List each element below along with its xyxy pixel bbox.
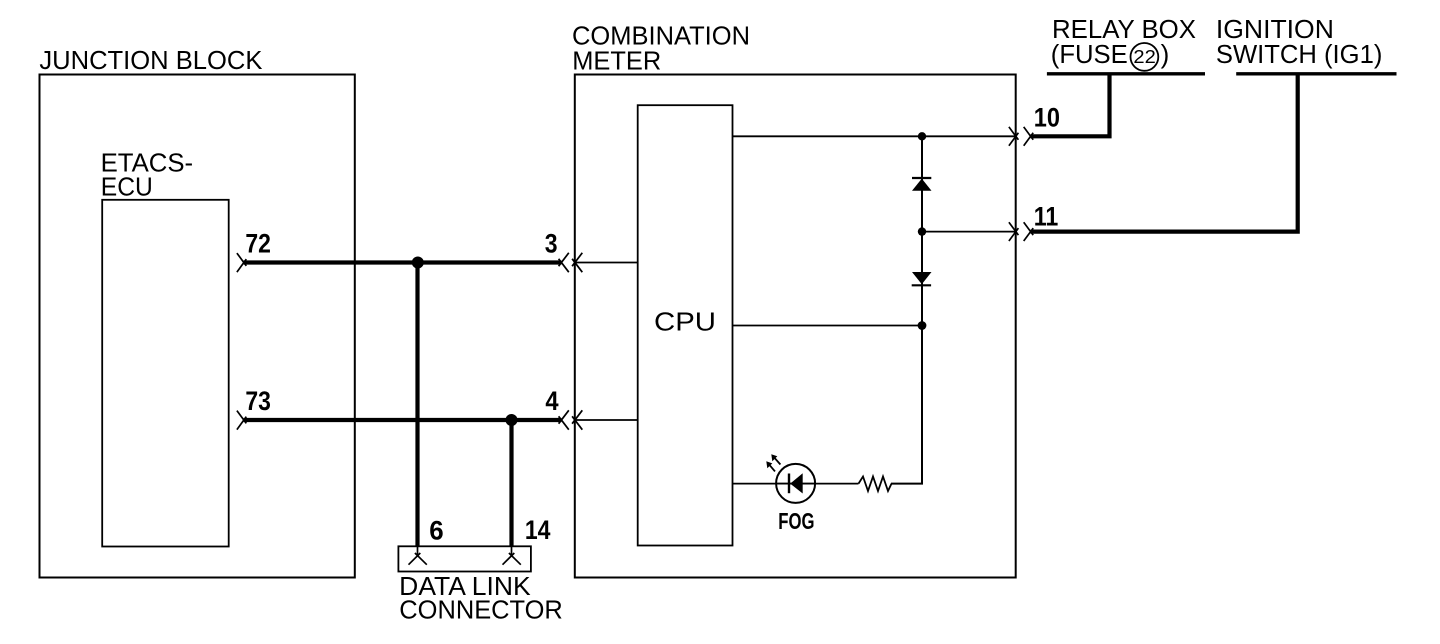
wire 10: meter to relay box: [1031, 74, 1110, 137]
svg-text:73: 73: [245, 386, 271, 416]
wire: node A down to data link connector pin 6: [415, 263, 419, 547]
wire: CPU to node C (top): [733, 135, 1016, 137]
node C junction dot: [918, 132, 926, 140]
node E junction dot: [918, 321, 927, 330]
wire: node B down to data link connector pin 14: [509, 420, 513, 546]
wire pin3 to CPU: [575, 262, 638, 264]
ETACS-ECU label: [101, 147, 194, 201]
pin 72 terminal chevron: [237, 253, 246, 272]
svg-text:6: 6: [429, 515, 443, 545]
vertical wire through diodes down to resistor corner: [891, 136, 922, 483]
pin 10 chevrons at meter box: [1009, 127, 1033, 146]
wire 72: ETACS to junction node: [244, 260, 562, 264]
svg-text:ECU: ECU: [101, 172, 153, 202]
svg-text:(FUSE: (FUSE: [1051, 39, 1128, 69]
combination meter label: [572, 20, 750, 75]
svg-text:CONNECTOR: CONNECTOR: [399, 595, 563, 625]
svg-text:22: 22: [1133, 47, 1155, 67]
diode D1 (pointing up): [912, 178, 932, 191]
svg-text:72: 72: [245, 229, 271, 259]
resistor R1: [859, 477, 892, 492]
data link connector label: [399, 571, 563, 624]
ETACS-ECU box: [102, 200, 229, 547]
wire 73: ETACS to node B: [244, 418, 562, 422]
wire: CPU to node E: [733, 325, 923, 327]
junction block box: [40, 75, 355, 578]
svg-text:FOG: FOG: [778, 508, 814, 534]
pin 6 terminal symbol: [409, 546, 427, 564]
node D junction dot: [918, 227, 926, 235]
wire pin4 to CPU: [575, 419, 638, 421]
relay box bus bar: [1047, 72, 1205, 75]
wire 11: meter to ignition switch: [1031, 74, 1298, 232]
relay box label: [1051, 14, 1196, 69]
wire: node D to meter edge (pin 11): [922, 231, 1016, 233]
combination meter box: [575, 75, 1016, 578]
ignition switch bus bar: [1236, 72, 1396, 75]
pin 73 terminal chevron: [237, 411, 246, 430]
node A junction dot on wire 72: [412, 257, 424, 269]
svg-text:SWITCH (IG1): SWITCH (IG1): [1216, 39, 1383, 69]
pin 11 chevrons at meter box: [1009, 222, 1033, 241]
wire: CPU to LED: [733, 483, 859, 485]
pin 4 chevrons at meter box: [559, 410, 583, 429]
svg-text:14: 14: [525, 515, 551, 545]
node B junction dot on wire 73: [506, 414, 518, 426]
svg-text:3: 3: [545, 229, 558, 259]
diode D2 (pointing down): [912, 272, 932, 285]
pin 3 chevrons at meter box: [559, 253, 583, 272]
LED emission arrows: [766, 454, 780, 471]
svg-text:4: 4: [545, 386, 558, 416]
svg-text:METER: METER: [572, 45, 661, 75]
svg-text:): ): [1161, 39, 1170, 69]
fuse 22 circled number: [1131, 43, 1159, 71]
svg-text:JUNCTION BLOCK: JUNCTION BLOCK: [39, 45, 263, 75]
svg-text:11: 11: [1034, 201, 1059, 231]
svg-text:10: 10: [1034, 103, 1060, 133]
ignition switch label: [1216, 14, 1383, 69]
svg-text:CPU: CPU: [654, 307, 716, 337]
data link connector box: [398, 546, 531, 571]
pin 14 terminal symbol: [503, 546, 521, 564]
CPU U1 box: [638, 105, 733, 545]
LED FOG indicator: [776, 464, 815, 503]
